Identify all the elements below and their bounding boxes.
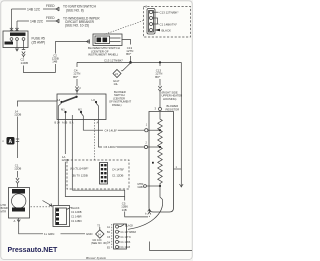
svg-text:RESISTOR: RESISTOR <box>166 107 180 111</box>
svg-text:C1 12TN/BK#: C1 12TN/BK# <box>121 231 137 234</box>
svg-text:M2: M2 <box>78 108 82 112</box>
svg-text:C13 12TN/BK*: C13 12TN/BK* <box>160 11 180 15</box>
svg-text:B 14: B 14 <box>55 122 61 125</box>
svg-text:C1 14BR: C1 14BR <box>71 215 82 219</box>
svg-text:BLACK: BLACK <box>125 224 134 227</box>
svg-text:14DB: 14DB <box>21 61 29 65</box>
svg-text:B A: B A <box>70 122 74 125</box>
svg-text:MTR: MTR <box>1 209 7 213</box>
svg-text:BLACK: BLACK <box>162 29 172 33</box>
svg-text:(B) TX 12DB: (B) TX 12DB <box>72 174 88 178</box>
svg-text:14B 22C: 14B 22C <box>30 20 44 24</box>
svg-text:12DB: 12DB <box>14 167 21 171</box>
svg-text:Pressauto.NET: Pressauto.NET <box>8 247 59 254</box>
svg-text:(SEE NO. 30): (SEE NO. 30) <box>91 241 107 245</box>
svg-text:C1 12B6: C1 12B6 <box>121 241 131 244</box>
svg-text:(25 AMP): (25 AMP) <box>32 41 46 45</box>
svg-text:C1 14BK/TN*: C1 14BK/TN* <box>160 22 178 26</box>
svg-text:BLACK: BLACK <box>71 206 80 210</box>
svg-text:INSTRUMENT PANEL): INSTRUMENT PANEL) <box>88 53 118 57</box>
svg-text:GRD: GRD <box>138 185 144 189</box>
svg-text:LO: LO <box>92 98 96 102</box>
svg-text:1x GRN: 1x GRN <box>44 232 54 236</box>
svg-text:C1 12BN: C1 12BN <box>71 219 82 223</box>
svg-text:C1 12DB: C1 12DB <box>112 174 123 178</box>
svg-text:(SEE NO. 10-15): (SEE NO. 10-15) <box>65 24 89 28</box>
svg-text:14L: 14L <box>114 82 119 86</box>
svg-text:A: A <box>9 139 13 145</box>
svg-text:HI: HI <box>58 98 61 102</box>
svg-text:BK*: BK* <box>126 52 132 56</box>
svg-text:12DB: 12DB <box>14 113 21 117</box>
svg-text:GND: GND <box>86 232 92 236</box>
svg-text:M1: M1 <box>61 108 65 112</box>
svg-text:BK*: BK* <box>155 75 161 79</box>
svg-text:(SEE NO. 8): (SEE NO. 8) <box>66 9 84 13</box>
svg-text:C1 12TN: C1 12TN <box>121 236 131 239</box>
svg-text:HOUSING): HOUSING) <box>163 97 177 101</box>
svg-text:C6 14DG*: C6 14DG* <box>104 145 118 149</box>
svg-text:BLOWER: BLOWER <box>167 104 179 108</box>
svg-text:C13 12TN/BK*: C13 12TN/BK* <box>104 58 124 62</box>
svg-text:FEED: FEED <box>46 4 55 8</box>
svg-text:FEED: FEED <box>46 16 55 20</box>
svg-text:A LB: A LB <box>62 122 68 125</box>
svg-text:(A) (TL)14 BR*: (A) (TL)14 BR* <box>70 167 89 171</box>
svg-text:C1 12LB: C1 12LB <box>121 246 131 249</box>
svg-text:BK*: BK* <box>73 75 79 79</box>
svg-text:14B: 14B <box>122 208 127 212</box>
svg-text:14B: 14B <box>52 60 57 64</box>
svg-text:C4 14TB*: C4 14TB* <box>112 168 125 172</box>
svg-text:C4 14LB*: C4 14LB* <box>105 128 118 132</box>
svg-text:Blower System: Blower System <box>86 256 107 260</box>
svg-text:A: A <box>14 219 16 223</box>
svg-text:C1 12DB: C1 12DB <box>71 210 82 214</box>
svg-text:PANEL): PANEL) <box>112 103 122 107</box>
svg-text:14B 12C: 14B 12C <box>27 8 41 12</box>
